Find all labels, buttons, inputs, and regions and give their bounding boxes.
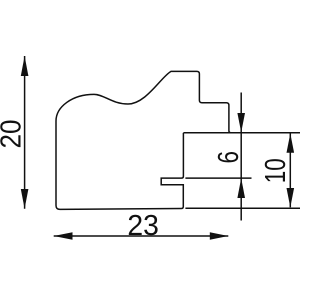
dimension 23: horizontal line: [54, 235, 229, 237]
arrow right: [210, 232, 229, 240]
arrow up (below notch-top ext line): [237, 178, 245, 198]
moulding profile outline: [56, 71, 231, 209]
arrow down (above surface): [237, 113, 245, 132]
svg-text:6: 6: [213, 151, 245, 164]
rabbet seat surface line: [183, 132, 300, 134]
extension line from notch top: [185, 177, 251, 179]
dimension 10: vertical line: [289, 134, 291, 208]
arrow down: [21, 189, 29, 209]
dimension 20: vertical line: [24, 56, 26, 209]
arrow up: [21, 56, 29, 76]
arrow down: [287, 188, 295, 207]
dimension 6: vertical line: [240, 93, 242, 221]
bottom-right line: [185, 207, 300, 209]
arrow up: [287, 133, 295, 152]
svg-text:20: 20: [0, 120, 28, 149]
svg-text:23: 23: [127, 210, 158, 242]
svg-text:10: 10: [260, 158, 292, 183]
arrow left: [54, 232, 73, 240]
